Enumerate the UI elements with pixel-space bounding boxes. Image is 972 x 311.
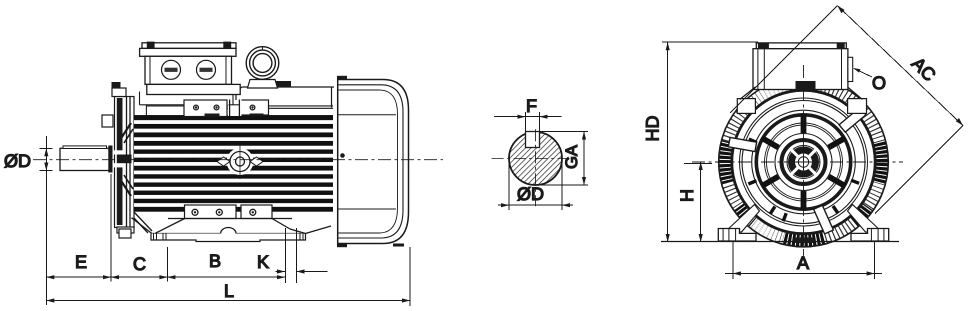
label O with leader xyxy=(853,68,872,77)
ground line xyxy=(661,241,899,243)
svg-text:ØD: ØD xyxy=(4,151,31,171)
box pedestals xyxy=(737,87,866,113)
centerline vertical right view xyxy=(803,65,805,258)
box lid clips xyxy=(147,42,155,49)
svg-text:B: B xyxy=(209,251,221,271)
white tab upper left xyxy=(728,137,756,151)
dimension L xyxy=(46,298,410,302)
extension lines bottom left view xyxy=(111,174,410,306)
centerlines middle xyxy=(492,158,574,160)
shaft keyway xyxy=(63,146,107,149)
lifting eye xyxy=(246,47,279,88)
K bolt hole lines in foot xyxy=(285,228,287,283)
feet right view xyxy=(718,205,888,242)
svg-text:L: L xyxy=(224,281,234,301)
fan cover xyxy=(337,76,409,247)
dimension HD xyxy=(662,42,758,242)
dimension A xyxy=(725,241,882,279)
central boss xyxy=(217,144,263,179)
fan cowl outer circle xyxy=(732,90,876,234)
fan spokes xyxy=(762,114,845,210)
fin gaps xyxy=(134,120,333,207)
terminal box left view xyxy=(140,43,241,105)
centerline left view xyxy=(33,159,443,161)
dimension row E C B xyxy=(46,275,285,279)
svg-text:K: K xyxy=(257,252,269,272)
dimension K xyxy=(276,269,328,273)
dimension AC diagonal xyxy=(730,6,963,214)
body top double line xyxy=(146,105,333,115)
svg-text:C: C xyxy=(133,254,146,274)
svg-text:HD: HD xyxy=(643,116,663,142)
svg-text:H: H xyxy=(677,189,697,202)
slants from body to feet xyxy=(168,218,292,220)
foot plate left view xyxy=(151,219,404,247)
dimension F xyxy=(494,112,562,132)
terminal box right view xyxy=(753,43,853,90)
end shield xyxy=(102,82,152,238)
dimension H xyxy=(684,162,712,242)
dimension OD middle xyxy=(498,164,573,210)
shaft section circle hatched xyxy=(509,132,562,185)
fin teeth ring xyxy=(725,83,883,241)
outer rim xyxy=(719,77,889,247)
white tab lower right xyxy=(814,205,834,234)
svg-text:A: A xyxy=(797,253,809,273)
cable gland plugs xyxy=(162,60,216,79)
svg-text:E: E xyxy=(75,252,87,272)
stator fin block xyxy=(134,115,333,212)
top mounting pads xyxy=(184,99,269,117)
svg-text:GA: GA xyxy=(563,145,581,169)
shaft xyxy=(60,148,110,170)
black strip on body top xyxy=(266,81,291,87)
drain plug bottom xyxy=(795,238,814,244)
teeth white slits over wedges xyxy=(725,83,883,241)
shaft shoulder xyxy=(108,146,112,173)
svg-text:AC: AC xyxy=(908,53,940,85)
teeth ring dark wedges xyxy=(726,142,882,240)
svg-text:ØD: ØD xyxy=(517,184,544,204)
conduit block under box xyxy=(796,81,816,90)
dimension GA xyxy=(536,132,588,186)
hub circles xyxy=(775,134,832,191)
svg-text:F: F xyxy=(526,96,537,116)
spoke ring bold xyxy=(756,115,850,209)
keyway xyxy=(526,132,540,148)
vent slot ticks xyxy=(748,139,859,221)
dimension OD shaft xyxy=(40,136,53,305)
bottom mounting pads xyxy=(185,205,273,219)
centerline horizontal right view xyxy=(692,161,903,163)
svg-text:O: O xyxy=(872,73,886,93)
white tab upper right xyxy=(839,107,866,132)
body top outline xyxy=(236,87,334,108)
